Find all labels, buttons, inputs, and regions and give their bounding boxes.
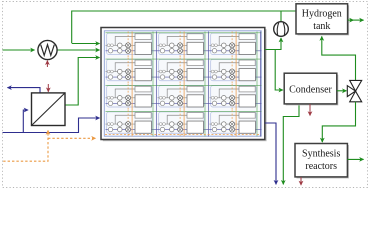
electrolyzer block outer frame [101,28,265,140]
module grid 3 cols x 4 rows [106,32,158,58]
wire: green tank right outlet [348,19,354,21]
wire: green feed into heat exchanger [3,49,35,51]
wire: green synthesis outlet right [347,158,363,160]
svg-text:Synthesis: Synthesis [302,149,340,160]
heat flow arrow under condenser [309,104,311,116]
wire: green valve to tank bottom [322,37,356,81]
wire: navy block outlet to bottom edge [265,123,276,184]
heat flow arrow under synthesis reactors [300,177,302,185]
condenser box [284,73,337,104]
electrolyzer block shadow [103,29,267,141]
outer dashed figure border [3,2,368,188]
wire: green condenser to valve [337,90,347,92]
heat exchanger E1 (circle with coil) [38,40,57,59]
wire: green drop to condenser [275,50,283,91]
svg-text:reactors: reactors [305,161,337,172]
condenser box shadow [286,75,339,106]
wire: orange dashed branch into block [48,137,96,139]
wire: top green bus to hydrogen tank [72,11,296,43]
wire: green condenser bottom loop to bottom edge [283,104,299,184]
wire: green separator to block (lower) [65,58,100,106]
synthesis reactors box shadow [297,145,349,178]
heat flow arrow into separator top [47,84,49,92]
wire: green heat exchanger to block (middle) [57,49,100,51]
heat flow arrow under heat exchanger [46,61,48,67]
wire: green valve down to synthesis reactors [322,102,355,142]
synthesis reactors box [295,144,347,177]
wire: green block outlet to pump [265,38,281,50]
hydrogen tank box shadow [298,5,350,35]
orange bottom bus inside block [105,134,260,136]
electrolyzer block inner frame [104,31,261,136]
wire: orange dashed feed loop [3,131,48,162]
wire: navy branch into separator [23,110,28,133]
svg-text:Condenser: Condenser [289,84,332,95]
wire: navy out of separator top, exits left [8,88,41,93]
wire: navy bottom bus [3,118,100,133]
svg-text:Hydrogen: Hydrogen [302,9,342,20]
svg-text:tank: tank [313,21,330,32]
three-way valve V1 [350,80,362,91]
compressor P1 (circle) [274,22,289,37]
wire: green arrow into block (top) [72,43,100,45]
wire: green pump outlet up to top bus [280,11,282,22]
hydrogen tank box [296,4,348,34]
separator S1 (square with diagonal) [32,93,66,126]
